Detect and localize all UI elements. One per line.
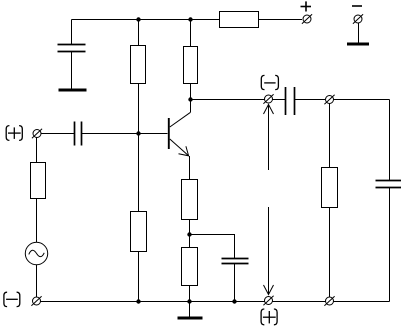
- resistor R2: [184, 20, 198, 100]
- wire minus supply to ground: [358, 23, 360, 43]
- capacitor C3: [222, 259, 249, 302]
- node bottom R3: [136, 299, 140, 303]
- resistor R8 input series: [31, 138, 46, 243]
- arrow up to output minus terminal: [264, 105, 274, 171]
- capacitor C4: [273, 87, 326, 115]
- resistor R7: [220, 12, 259, 28]
- wire terminal to right edge: [334, 99, 390, 101]
- capacitor C5: [376, 181, 401, 302]
- ground under C1: [59, 89, 87, 92]
- wire R4 to R5: [189, 220, 191, 248]
- resistor R3: [131, 134, 147, 302]
- label - supply: [352, 5, 362, 7]
- terminal input minus: [31, 296, 41, 305]
- node emitter divider: [187, 232, 191, 236]
- terminal supply plus: [302, 14, 312, 23]
- ground under minus supply: [347, 43, 369, 46]
- transistor Q1: [169, 112, 191, 156]
- wire emitter node to C3: [190, 235, 235, 259]
- label (+) input: [6, 126, 22, 141]
- source G1: [25, 242, 47, 264]
- node top rail / R2: [188, 17, 192, 21]
- arrow down to output plus terminal: [264, 207, 274, 295]
- terminal output plus (arrow) bottom: [263, 296, 273, 305]
- label (+) output bottom: [261, 309, 277, 325]
- capacitor C1: [58, 20, 86, 89]
- terminal input plus: [32, 129, 42, 138]
- wire R7 to plus supply terminal: [259, 19, 303, 21]
- resistor R5: [182, 248, 198, 286]
- node base junction: [136, 131, 140, 135]
- wire C2 to base: [82, 133, 168, 135]
- wire G1 to bottom input terminal: [36, 265, 38, 297]
- node bottom R5: [187, 299, 191, 303]
- label (-) output top: [261, 75, 278, 89]
- wire collector: [190, 100, 192, 113]
- resistor R4: [182, 180, 198, 220]
- node collector: [188, 97, 192, 101]
- resistor R6: [322, 104, 338, 298]
- capacitor C2: [75, 122, 82, 146]
- wire R5 to bottom rail: [189, 286, 191, 302]
- wire bottom rail: [41, 301, 390, 303]
- label (-) input: [4, 292, 20, 306]
- node bottom C3: [232, 299, 236, 303]
- wire collector to output terminal: [191, 99, 265, 101]
- wire right edge down: [389, 100, 391, 181]
- node top rail / R1: [136, 17, 140, 21]
- resistor R1: [131, 20, 146, 134]
- wire top rail: [72, 19, 220, 21]
- ground bottom: [178, 302, 203, 319]
- wire emitter: [189, 156, 191, 180]
- wire input terminal to C2: [41, 133, 75, 135]
- terminal output right top: [324, 95, 334, 104]
- terminal output minus: [263, 94, 273, 103]
- label + supply: [301, 1, 312, 11]
- terminal supply minus: [353, 14, 363, 23]
- terminal output plus bottom right: [324, 296, 334, 305]
